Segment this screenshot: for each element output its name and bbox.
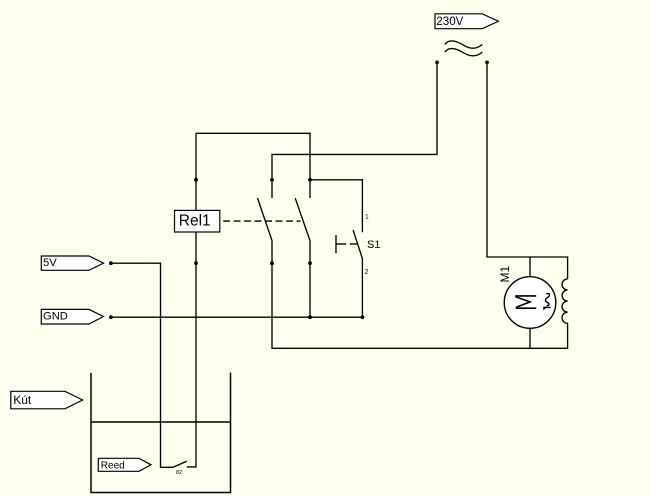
- svg-text:1: 1: [365, 214, 369, 221]
- svg-text:Kút: Kút: [13, 393, 32, 407]
- svg-text:82: 82: [176, 470, 182, 476]
- svg-text:5V: 5V: [43, 257, 57, 269]
- svg-text:S1: S1: [367, 239, 380, 251]
- svg-text:Rel1: Rel1: [179, 213, 211, 230]
- svg-text:Reed: Reed: [101, 460, 125, 471]
- svg-text:GND: GND: [43, 311, 68, 323]
- svg-text:230V: 230V: [436, 15, 463, 28]
- svg-text:2: 2: [365, 269, 369, 276]
- svg-text:M1: M1: [498, 266, 512, 283]
